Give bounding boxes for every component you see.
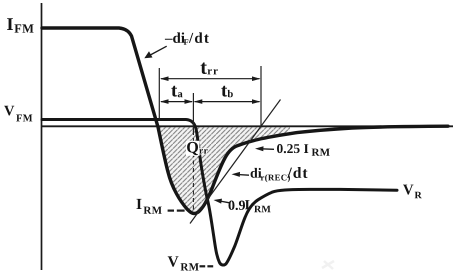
tick right (end of trr) — [260, 66, 262, 127]
label IRM — [137, 199, 162, 214]
label VFM — [4, 106, 32, 122]
Qrr hatched area — [158, 127, 290, 213]
IRM leader dashes — [168, 210, 185, 212]
current waveform — [42, 28, 448, 214]
0.25 Irm annotation arrow — [255, 146, 274, 151]
-diF/dt annotation arrow — [144, 46, 166, 58]
label Qrr — [187, 142, 208, 155]
tangent line di(rec)/dt — [190, 100, 281, 224]
label tb — [221, 86, 233, 98]
label VRM — [168, 256, 199, 270]
dashed vertical at Irm — [192, 138, 194, 211]
label VR — [403, 185, 422, 199]
tick left (zero crossing) — [158, 68, 160, 121]
ta dimension arrow — [160, 99, 193, 104]
VRM leader dashes — [200, 265, 214, 267]
horizontal zero axis — [41, 125, 453, 127]
tb dimension arrow — [194, 99, 261, 104]
label dir(REC)/dt — [251, 167, 308, 182]
label 0.25 IRM — [277, 144, 330, 156]
white backing for Qrr label — [186, 141, 200, 156]
vertical axis — [41, 3, 43, 270]
voltage waveform — [42, 120, 397, 266]
label ta — [171, 86, 182, 98]
label IFM — [7, 18, 33, 32]
label -diF/dt — [165, 32, 209, 44]
trr dimension arrow — [160, 76, 261, 81]
tick middle (Irm instant) — [192, 93, 194, 135]
Qrr area light scan tint — [158, 127, 290, 213]
dir(REC)/dt annotation arrow — [232, 172, 250, 177]
faint scan smudge — [322, 261, 334, 269]
label 0.9 IRM — [229, 200, 271, 212]
0.9 Irm annotation arrow — [214, 199, 230, 204]
label trr — [201, 63, 218, 75]
